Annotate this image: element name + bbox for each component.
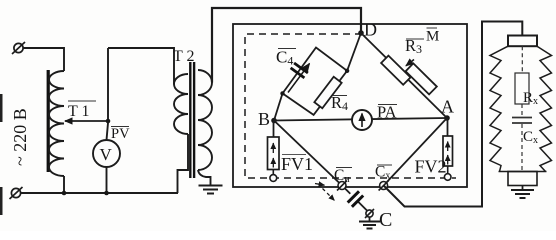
junction W corner (280, 91, 284, 95)
insulator sheds right (537, 46, 552, 171)
capacitor C4 arrow (288, 64, 310, 93)
wire top-left terminal to T1 (23, 48, 64, 71)
resistor R3 section 2 (406, 63, 437, 94)
wire parallelogram to D (347, 33, 361, 71)
svg-text:C4: C4 (276, 48, 293, 68)
scan edge artifact left (0, 94, 3, 122)
arrester FV2 (443, 136, 453, 166)
equivalent wire (521, 104, 523, 116)
terminal input bottom (10, 187, 23, 199)
capacitor C4 plates (291, 63, 308, 78)
transformer T2 secondary winding (198, 70, 212, 170)
equivalent circuit dashed centerline bottom (521, 124, 523, 171)
R3 wiper arrow (406, 60, 414, 66)
transformer T2 primary winding (174, 74, 188, 134)
label C4 (276, 48, 296, 68)
terminal Cn (337, 181, 347, 191)
guard dashed arrow (323, 189, 335, 201)
autotransformer T1 core (47, 70, 50, 172)
svg-text:М: М (426, 29, 439, 45)
equivalent circuit dashed centerline top (521, 46, 523, 73)
wire PV riser (107, 48, 109, 140)
svg-text:PA: PA (377, 103, 397, 122)
label R4 (331, 93, 348, 113)
standard capacitor CN connection diagonal (345, 188, 367, 210)
wire A to Cx terminal (384, 118, 447, 186)
meter PA (352, 110, 372, 130)
label T1 (68, 101, 96, 120)
FV1 bottom terminal (272, 170, 274, 175)
enclosure M box (233, 24, 467, 187)
insulator sheds left (490, 46, 508, 171)
node D (358, 30, 364, 36)
svg-text:PV: PV (111, 126, 130, 142)
guard arrow on box edge (315, 184, 325, 186)
svg-text:B: B (258, 109, 270, 129)
wire PV bottom (106, 167, 108, 193)
transformer T2 core (189, 62, 191, 178)
wire T2 primary bottom (178, 134, 189, 193)
wire T1 bottom to bus (63, 176, 65, 193)
svg-text:FV1: FV1 (281, 154, 313, 174)
wire bottom (21, 192, 179, 194)
voltmeter PV (93, 140, 120, 167)
equivalent resistor Rx (515, 73, 529, 104)
T1 tap arrow (65, 120, 108, 122)
insulator cap (508, 36, 537, 47)
svg-text:T 1: T 1 (68, 103, 89, 120)
arrester FV1 (268, 137, 280, 170)
wire PV top corner to T2 (108, 48, 174, 85)
resistor R3 section 1 (381, 56, 410, 85)
svg-text:~ 220 В: ~ 220 В (10, 108, 30, 166)
standard capacitor CN plates (348, 191, 364, 207)
ground C (369, 217, 371, 221)
junction (104, 191, 109, 196)
terminal Cx (379, 181, 389, 191)
insulator base box (508, 172, 537, 186)
svg-text:Cх: Cх (375, 164, 390, 182)
resistor R4 (314, 77, 341, 109)
insulator base flange (499, 171, 547, 173)
svg-text:Cх: Cх (523, 129, 538, 146)
node A (444, 115, 450, 121)
wire B to A (274, 118, 447, 121)
scan edge artifact left lower (0, 187, 3, 215)
arm C4||R4 parallelogram (283, 48, 348, 115)
autotransformer T1 winding (49, 71, 64, 176)
wire B down to FV1 (273, 121, 275, 138)
wire Cx to test object (384, 22, 523, 207)
svg-text:FV2: FV2 (415, 157, 447, 177)
wire T2 secondary top to bridge D (212, 8, 361, 83)
ground insulator (522, 186, 524, 190)
label Cn (334, 167, 352, 185)
wire D to A (R3 arm) (361, 33, 447, 118)
svg-text:Cн: Cн (334, 167, 350, 185)
junction E corner (345, 69, 349, 73)
svg-text:Rх: Rх (523, 90, 538, 107)
label PA (377, 103, 397, 122)
wire A down to FV2 (447, 118, 449, 136)
wire T2 secondary bottom to ground (198, 170, 211, 185)
junction tap (106, 119, 111, 124)
svg-text:V: V (100, 145, 113, 164)
wire B to Cn terminal (274, 121, 342, 186)
shield dashed box (245, 34, 456, 178)
terminal input top (12, 42, 25, 54)
FV2 bottom terminal (447, 166, 449, 174)
label R3 (405, 36, 424, 56)
label M (426, 28, 439, 45)
label PV (111, 126, 130, 142)
svg-text:C: C (379, 209, 392, 231)
wire B to parallelogram (274, 93, 283, 120)
label Cx (375, 164, 392, 182)
svg-text:D: D (364, 20, 377, 40)
node B (271, 118, 277, 124)
junction (62, 191, 67, 196)
label FV1 (282, 154, 306, 156)
equivalent capacitor Cx plates (512, 118, 532, 124)
terminal below CN (365, 209, 374, 218)
ground T2 (199, 186, 223, 194)
